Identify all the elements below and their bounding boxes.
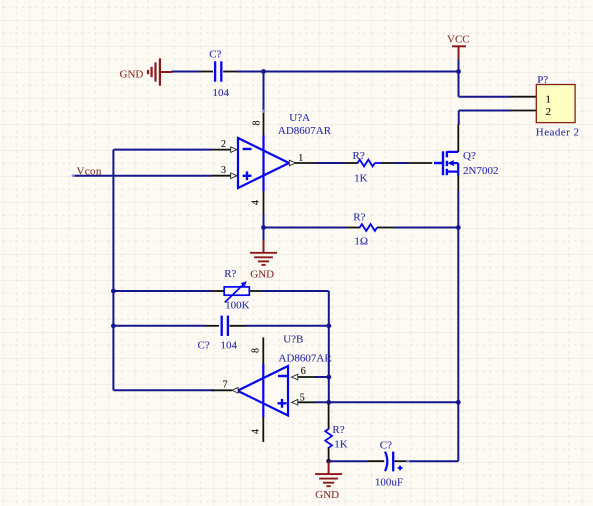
label R3 value 1K	[334, 439, 348, 451]
label GND under U1A	[250, 268, 274, 280]
U1B pin 8 lead	[262, 337, 264, 364]
resistor R2 leads	[346, 227, 393, 229]
label Q1 comment 2N7002	[463, 165, 498, 177]
op-amp U1B plus sign	[278, 399, 287, 408]
label R4 designator R?	[224, 268, 236, 280]
label C3 value 100uF	[375, 477, 403, 489]
junction U1A pin4 at 1-ohm wire	[261, 225, 266, 230]
capacitor C3 leads	[368, 460, 407, 462]
label U1B designator	[283, 333, 303, 345]
U1A pin 1 lead	[289, 160, 316, 166]
U1A pin 4 lead	[263, 191, 265, 215]
wire R1 to Q1 gate	[394, 162, 408, 164]
connector P1 pin 1 lead	[510, 96, 536, 98]
connector P1 body	[536, 85, 575, 123]
resistor R3 leads	[328, 403, 330, 461]
svg-text:2: 2	[221, 139, 226, 150]
svg-text:U?B: U?B	[283, 333, 303, 345]
svg-text:5: 5	[300, 393, 305, 404]
svg-text:1: 1	[545, 93, 551, 105]
svg-text:2: 2	[545, 106, 551, 118]
power GND earth bottom	[315, 461, 342, 486]
label R1 value 1K	[354, 172, 368, 184]
power GND earth under U1A	[250, 240, 277, 265]
label R2 designator R?	[353, 211, 365, 223]
wire 1-ohm sense right segment	[394, 227, 459, 229]
label GND bottom	[315, 489, 339, 501]
op-amp U1B minus sign	[278, 375, 287, 377]
wire left feedback vertical	[112, 150, 114, 391]
label P1 designator P?	[537, 74, 548, 86]
junction VCC at top net	[456, 69, 461, 74]
U1B pin number 7	[223, 380, 228, 391]
connector P1 pin number 1	[545, 93, 551, 105]
U1A pin number 2	[221, 139, 226, 150]
capacitor C3 plus mark	[398, 466, 403, 471]
junction top net at U1A pin8	[261, 69, 266, 74]
wire U1A pin8 supply from top net	[263, 72, 265, 112]
wire mid feedback vertical	[328, 291, 330, 403]
transistor Q1 drain pin	[457, 125, 459, 153]
svg-text:6: 6	[301, 366, 306, 377]
wire R3 bottom to C3 node	[329, 460, 368, 462]
wire VCC stem to junction	[458, 59, 460, 73]
svg-text:8: 8	[251, 348, 262, 353]
U1A pin number 4	[251, 200, 262, 205]
op-amp U1A body	[238, 135, 289, 191]
junction mid vertical at C2 wire	[326, 323, 331, 328]
U1B pin 6 lead	[292, 374, 316, 380]
U1B pin number 4	[250, 429, 261, 434]
svg-text:Vcon: Vcon	[77, 166, 102, 178]
wire U1B pin6 stub	[315, 376, 329, 378]
capacitor C3 plates	[385, 452, 393, 472]
label U1A designator	[289, 112, 310, 124]
svg-text:R?: R?	[224, 268, 236, 280]
potentiometer R4 body	[224, 281, 249, 302]
junction right rail at 1-ohm wire	[456, 225, 461, 230]
svg-text:104: 104	[221, 340, 238, 352]
svg-text:R?: R?	[332, 424, 344, 436]
U1B pin 7 lead	[212, 388, 239, 394]
U1A pin 8 lead	[263, 111, 265, 135]
wire pot branch	[113, 290, 328, 292]
svg-text:U?A: U?A	[289, 112, 310, 124]
label R3 designator R?	[332, 424, 344, 436]
svg-text:GND: GND	[120, 69, 144, 81]
wire right rail to bottom elbow	[407, 402, 459, 461]
svg-text:AD8607AR: AD8607AR	[278, 125, 332, 137]
transistor Q1 source pin	[457, 176, 459, 191]
svg-text:8: 8	[252, 121, 263, 126]
svg-text:2N7002: 2N7002	[463, 165, 498, 177]
svg-text:100K: 100K	[225, 299, 250, 311]
svg-text:GND: GND	[250, 268, 274, 280]
capacitor C1 leads	[199, 71, 237, 73]
transistor Q1 gate pin	[408, 162, 432, 164]
wire U1B output to left vertical	[113, 389, 214, 391]
junction left vertical at C2 wire	[111, 323, 116, 328]
svg-text:AD8607AR: AD8607AR	[279, 352, 333, 364]
svg-text:4: 4	[251, 200, 262, 205]
U1B pin number 8	[251, 348, 262, 353]
svg-text:4: 4	[250, 429, 261, 434]
label C2 designator C?	[198, 340, 210, 352]
svg-text:R?: R?	[353, 211, 365, 223]
svg-text:C?: C?	[209, 48, 221, 60]
label Q1 designator Q?	[463, 150, 476, 162]
wire pin2 elbow horizontal	[113, 149, 211, 151]
net label Vcon	[77, 166, 102, 178]
junction mid vertical at pin5 wire	[326, 400, 331, 405]
svg-text:1: 1	[298, 153, 303, 164]
resistor R2 body	[360, 224, 377, 231]
svg-text:1K: 1K	[354, 172, 368, 184]
label U1B comment AD8607AR	[279, 352, 333, 364]
wire MOSFET source down right rail	[457, 190, 459, 402]
svg-text:7: 7	[223, 380, 228, 391]
wire U1A output to R1	[316, 162, 344, 164]
svg-text:Header 2: Header 2	[536, 126, 580, 138]
resistor R1 body	[358, 160, 382, 167]
wire end marker C3 right	[406, 459, 410, 463]
label C1 designator C?	[209, 48, 221, 60]
label C3 designator C?	[380, 440, 392, 452]
svg-text:Q?: Q?	[463, 150, 476, 162]
U1A pin 2 lead	[212, 147, 237, 153]
svg-text:1K: 1K	[334, 439, 348, 451]
wire U1B pin5 net	[316, 401, 459, 403]
wire end marker Vcon	[71, 174, 75, 178]
label R2 value 1ohm	[354, 236, 368, 248]
wire Vcon to U1A pin3	[73, 175, 212, 177]
op-amp U1A minus sign	[243, 148, 252, 150]
svg-text:104: 104	[213, 87, 230, 99]
wire U1A pin4 node	[263, 215, 265, 241]
label GND top-left	[120, 69, 144, 81]
U1B pin number 6	[301, 366, 306, 377]
svg-text:3: 3	[221, 165, 226, 176]
wire end marker U1A pin8 net	[262, 109, 266, 113]
svg-text:GND: GND	[315, 489, 339, 501]
wire 1-ohm sense left segment	[264, 227, 347, 229]
junction R3 C3 GND node	[326, 459, 331, 464]
wire C2 branch	[113, 325, 328, 327]
svg-text:VCC: VCC	[447, 34, 470, 46]
svg-text:100uF: 100uF	[375, 477, 403, 489]
capacitor C1 plates	[215, 61, 221, 81]
op-amp U1A plus sign	[243, 171, 252, 180]
label R4 value 100K	[225, 299, 250, 311]
svg-text:C?: C?	[380, 440, 392, 452]
power VCC symbol	[452, 46, 466, 59]
capacitor C2 plates	[222, 316, 228, 336]
U1B pin number 5	[300, 393, 305, 404]
resistor R3 body	[325, 429, 332, 448]
label C1 value 104	[213, 87, 230, 99]
op-amp U1B body	[238, 364, 289, 417]
U1B pin 5 lead	[292, 400, 316, 406]
label R1 designator R?	[353, 150, 365, 162]
label VCC	[447, 34, 470, 46]
transistor Q1 body	[434, 151, 458, 176]
label P1 comment Header 2	[536, 126, 580, 138]
U1A pin number 1	[298, 153, 303, 164]
junction left vertical at pot wire	[111, 289, 116, 294]
U1A pin 3 lead	[212, 173, 237, 179]
potentiometer R4 leads	[212, 290, 263, 292]
junction mid vertical at pin6	[326, 375, 331, 380]
power GND signal-ground top-left	[148, 58, 172, 85]
wire GND bypass to VCC net (top horizontal)	[172, 71, 459, 73]
connector P1 pin number 2	[545, 106, 551, 118]
U1A pin number 3	[221, 165, 226, 176]
label C2 value 104	[221, 340, 238, 352]
junction right rail at pin5 wire	[456, 400, 461, 405]
connector P1 pin 2 lead	[510, 110, 536, 112]
U1A pin number 8	[252, 121, 263, 126]
svg-text:C?: C?	[198, 340, 210, 352]
label U1A comment AD8607AR	[278, 125, 332, 137]
wire VCC vertical down to header pin1 elbow	[459, 72, 511, 97]
svg-text:P?: P?	[537, 74, 548, 86]
svg-text:R?: R?	[353, 150, 365, 162]
resistor R1 leads	[343, 162, 394, 164]
capacitor C2 leads	[205, 325, 247, 327]
svg-text:1Ω: 1Ω	[354, 236, 368, 248]
wire header pin2 to MOSFET drain	[459, 111, 511, 126]
U1B pin 4 lead	[262, 417, 264, 442]
